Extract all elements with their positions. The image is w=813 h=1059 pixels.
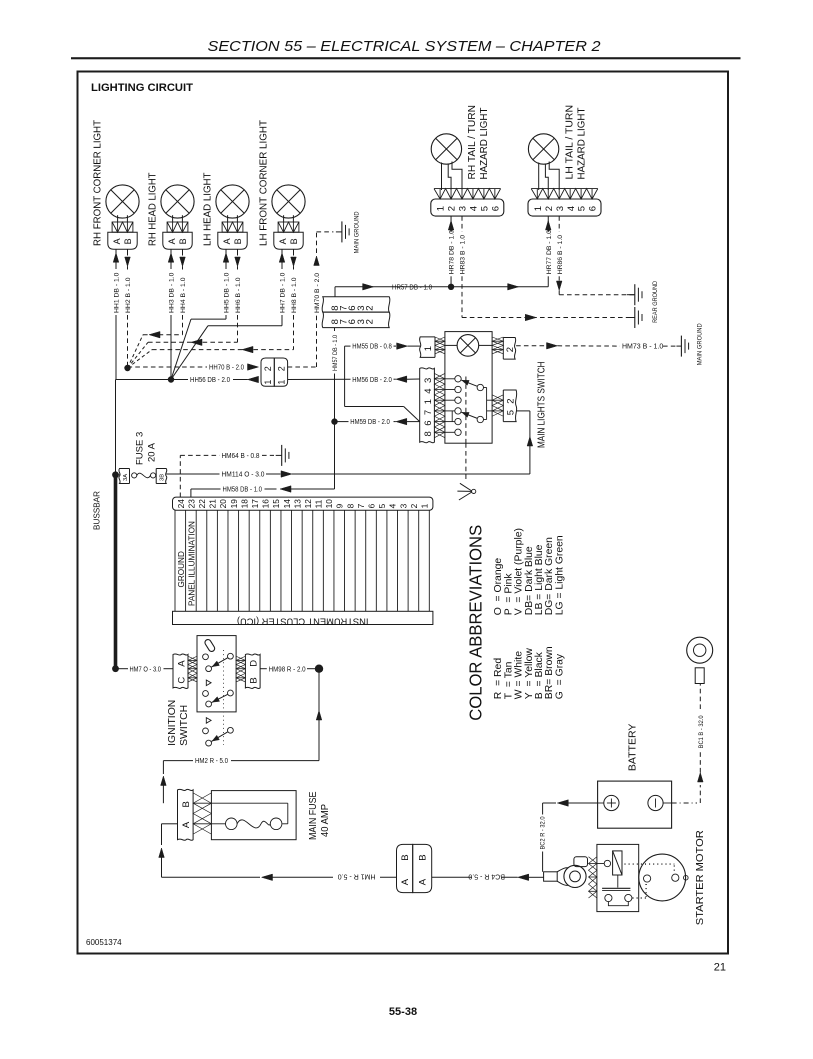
svg-text:1: 1 bbox=[423, 399, 434, 404]
svg-text:HM55 DB - 0.8: HM55 DB - 0.8 bbox=[352, 344, 392, 351]
svg-text:SWITCH: SWITCH bbox=[179, 705, 190, 746]
svg-text:4: 4 bbox=[423, 388, 434, 393]
svg-text:55-38: 55-38 bbox=[389, 1006, 417, 1018]
svg-text:21: 21 bbox=[714, 962, 726, 974]
svg-text:SECTION 55 – ELECTRICAL SYSTEM: SECTION 55 – ELECTRICAL SYSTEM – CHAPTER… bbox=[208, 39, 602, 55]
svg-text:12: 12 bbox=[303, 499, 313, 509]
svg-text:RH TAIL / TURN: RH TAIL / TURN bbox=[467, 105, 478, 180]
svg-text:COLOR ABBREVIATIONS: COLOR ABBREVIATIONS bbox=[466, 525, 486, 721]
svg-text:13: 13 bbox=[292, 499, 302, 509]
svg-text:A: A bbox=[181, 821, 192, 828]
svg-text:RH HEAD LIGHT: RH HEAD LIGHT bbox=[148, 172, 159, 246]
svg-text:REAR GROUND: REAR GROUND bbox=[652, 281, 659, 323]
svg-text:2: 2 bbox=[505, 347, 516, 352]
svg-text:3B: 3B bbox=[160, 474, 166, 481]
svg-text:HM70 B - 2.0: HM70 B - 2.0 bbox=[314, 273, 321, 313]
svg-text:2: 2 bbox=[447, 206, 458, 211]
svg-text:1: 1 bbox=[533, 206, 544, 211]
svg-text:RH FRONT CORNER LIGHT: RH FRONT CORNER LIGHT bbox=[93, 119, 104, 246]
svg-text:B: B bbox=[181, 801, 192, 807]
svg-text:5: 5 bbox=[577, 206, 588, 211]
svg-text:HR83 B - 1.0: HR83 B - 1.0 bbox=[460, 235, 467, 275]
svg-text:HH3 DB - 1.0: HH3 DB - 1.0 bbox=[169, 272, 176, 313]
svg-text:A: A bbox=[278, 238, 288, 244]
svg-text:8: 8 bbox=[423, 431, 434, 436]
svg-text:C: C bbox=[176, 677, 187, 684]
svg-text:23: 23 bbox=[186, 499, 196, 509]
svg-text:8: 8 bbox=[345, 503, 355, 508]
svg-text:4: 4 bbox=[566, 206, 577, 211]
svg-text:6: 6 bbox=[423, 421, 434, 426]
svg-text:2: 2 bbox=[544, 206, 555, 211]
svg-text:2: 2 bbox=[505, 399, 516, 404]
svg-text:B: B bbox=[233, 238, 243, 244]
svg-text:LH TAIL / TURN: LH TAIL / TURN bbox=[564, 105, 575, 180]
svg-text:HAZARD LIGHT: HAZARD LIGHT bbox=[576, 107, 587, 180]
svg-text:B: B bbox=[289, 238, 299, 244]
svg-text:19: 19 bbox=[229, 499, 239, 509]
svg-text:20: 20 bbox=[218, 499, 228, 509]
svg-text:5: 5 bbox=[377, 503, 387, 508]
svg-text:MAIN LIGHTS SWITCH: MAIN LIGHTS SWITCH bbox=[536, 362, 547, 449]
svg-text:HM73 B - 1.0: HM73 B - 1.0 bbox=[622, 344, 663, 351]
svg-text:10: 10 bbox=[324, 499, 334, 509]
svg-text:B: B bbox=[248, 677, 259, 683]
svg-text:HH8 B - 1.0: HH8 B - 1.0 bbox=[291, 277, 298, 313]
svg-text:24: 24 bbox=[176, 499, 186, 509]
svg-text:FUSE 3: FUSE 3 bbox=[134, 432, 145, 465]
svg-text:INSTRUMENT CLUSTER (ICU): INSTRUMENT CLUSTER (ICU) bbox=[237, 616, 369, 626]
svg-text:22: 22 bbox=[197, 499, 207, 509]
svg-text:STARTER MOTOR: STARTER MOTOR bbox=[695, 830, 706, 926]
svg-text:HM64 B - 0.8: HM64 B - 0.8 bbox=[222, 453, 260, 460]
svg-text:LH HEAD LIGHT: LH HEAD LIGHT bbox=[203, 172, 214, 246]
svg-text:HM1 R - 5.0: HM1 R - 5.0 bbox=[338, 872, 376, 879]
svg-text:LG = Light Green: LG = Light Green bbox=[554, 535, 565, 615]
svg-text:A: A bbox=[222, 238, 232, 244]
svg-text:HH6 B - 1.0: HH6 B - 1.0 bbox=[235, 277, 242, 313]
svg-text:40 AMP: 40 AMP bbox=[320, 804, 331, 837]
svg-text:HH2 B - 1.0: HH2 B - 1.0 bbox=[125, 277, 132, 313]
svg-text:A: A bbox=[400, 878, 411, 885]
svg-text:5: 5 bbox=[505, 410, 516, 415]
svg-text:5: 5 bbox=[480, 206, 491, 211]
svg-text:3A: 3A bbox=[123, 474, 129, 481]
svg-text:HM58 DB - 1.0: HM58 DB - 1.0 bbox=[223, 487, 263, 494]
svg-text:1: 1 bbox=[276, 380, 286, 385]
svg-text:6: 6 bbox=[490, 206, 501, 211]
svg-text:21: 21 bbox=[208, 499, 218, 509]
svg-text:HM98 R - 2.0: HM98 R - 2.0 bbox=[269, 666, 306, 673]
svg-text:BC4 R - 5.0: BC4 R - 5.0 bbox=[468, 872, 505, 879]
svg-text:PANEL ILLUMINATION: PANEL ILLUMINATION bbox=[187, 521, 196, 606]
svg-text:IGNITION: IGNITION bbox=[167, 700, 178, 746]
svg-text:20 A: 20 A bbox=[146, 442, 157, 462]
svg-text:HH56 DB - 2.0: HH56 DB - 2.0 bbox=[190, 377, 230, 384]
svg-text:D: D bbox=[248, 660, 259, 667]
svg-text:17: 17 bbox=[250, 499, 260, 509]
svg-text:B: B bbox=[178, 238, 188, 244]
svg-text:HM59 DB - 2.0: HM59 DB - 2.0 bbox=[350, 419, 390, 426]
svg-text:HH5 DB - 1.0: HH5 DB - 1.0 bbox=[224, 272, 231, 313]
svg-text:1: 1 bbox=[423, 346, 434, 351]
svg-text:HM114 O - 3.0: HM114 O - 3.0 bbox=[222, 472, 265, 479]
svg-text:14: 14 bbox=[282, 499, 292, 509]
svg-text:B: B bbox=[400, 854, 411, 860]
svg-text:A: A bbox=[167, 238, 177, 244]
svg-text:BUSSBAR: BUSSBAR bbox=[93, 491, 102, 530]
svg-text:60051374: 60051374 bbox=[86, 938, 122, 947]
svg-text:HM7 O - 3.0: HM7 O - 3.0 bbox=[130, 666, 162, 673]
svg-text:7: 7 bbox=[356, 503, 366, 508]
svg-text:BC2 R - 32.0: BC2 R - 32.0 bbox=[539, 816, 546, 849]
svg-text:2: 2 bbox=[365, 319, 376, 324]
svg-text:1: 1 bbox=[436, 206, 447, 211]
svg-text:3: 3 bbox=[398, 503, 408, 508]
svg-text:1: 1 bbox=[263, 380, 273, 385]
svg-text:B: B bbox=[123, 238, 133, 244]
svg-text:GROUND: GROUND bbox=[177, 551, 186, 587]
svg-text:2: 2 bbox=[409, 503, 419, 508]
svg-text:3: 3 bbox=[555, 206, 566, 211]
svg-text:G = Gray: G = Gray bbox=[554, 653, 565, 699]
svg-text:BC1 B - 32.0: BC1 B - 32.0 bbox=[698, 715, 705, 748]
svg-text:1: 1 bbox=[420, 503, 430, 508]
svg-text:16: 16 bbox=[261, 499, 271, 509]
svg-text:LH FRONT CORNER LIGHT: LH FRONT CORNER LIGHT bbox=[259, 119, 270, 246]
svg-text:HH70 B - 2.0: HH70 B - 2.0 bbox=[209, 365, 244, 372]
svg-text:LIGHTING CIRCUIT: LIGHTING CIRCUIT bbox=[91, 82, 193, 94]
svg-text:MAIN FUSE: MAIN FUSE bbox=[308, 791, 319, 840]
svg-text:HAZARD LIGHT: HAZARD LIGHT bbox=[479, 107, 490, 180]
svg-text:11: 11 bbox=[314, 499, 324, 508]
svg-text:2: 2 bbox=[365, 306, 376, 311]
svg-text:7: 7 bbox=[423, 410, 434, 415]
svg-text:15: 15 bbox=[271, 499, 281, 509]
svg-text:6: 6 bbox=[367, 503, 377, 508]
svg-text:A: A bbox=[112, 238, 122, 244]
svg-text:MAIN GROUND: MAIN GROUND bbox=[354, 211, 361, 253]
svg-text:18: 18 bbox=[239, 499, 249, 509]
svg-text:HH1 DB - 1.0: HH1 DB - 1.0 bbox=[114, 272, 121, 313]
svg-text:9: 9 bbox=[335, 503, 345, 508]
svg-text:3: 3 bbox=[423, 378, 434, 383]
svg-text:HR77 DB - 1.0: HR77 DB - 1.0 bbox=[546, 230, 553, 274]
svg-text:HH7 DB - 1.0: HH7 DB - 1.0 bbox=[280, 272, 287, 313]
svg-text:B: B bbox=[417, 854, 428, 860]
svg-text:HR78 DB - 1.0: HR78 DB - 1.0 bbox=[449, 230, 456, 274]
svg-text:4: 4 bbox=[388, 503, 398, 508]
svg-text:HR57 DB - 1.0: HR57 DB - 1.0 bbox=[392, 284, 432, 291]
svg-text:3: 3 bbox=[458, 206, 469, 211]
svg-text:A: A bbox=[417, 878, 428, 885]
svg-text:6: 6 bbox=[588, 206, 599, 211]
svg-text:A: A bbox=[176, 660, 187, 667]
svg-text:HR86 B - 1.0: HR86 B - 1.0 bbox=[557, 235, 564, 275]
svg-text:2: 2 bbox=[263, 366, 273, 371]
svg-text:HM2 R - 5.0: HM2 R - 5.0 bbox=[195, 758, 228, 765]
svg-text:HM56 DB - 2.0: HM56 DB - 2.0 bbox=[352, 377, 392, 384]
svg-text:BATTERY: BATTERY bbox=[628, 724, 639, 772]
svg-text:MAIN GROUND: MAIN GROUND bbox=[697, 323, 704, 365]
svg-text:4: 4 bbox=[469, 206, 480, 211]
svg-text:HH4 B - 1.0: HH4 B - 1.0 bbox=[180, 277, 187, 313]
svg-text:HM57 DB - 1.0: HM57 DB - 1.0 bbox=[332, 335, 339, 371]
svg-text:2: 2 bbox=[276, 366, 286, 371]
